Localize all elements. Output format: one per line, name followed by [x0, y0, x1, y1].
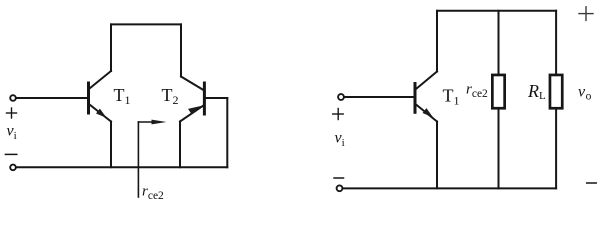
- transistor T2 (left): [180, 77, 204, 122]
- minus sign (output): [587, 182, 597, 184]
- resistor rce2: [492, 75, 504, 108]
- svg-text:vi: vi: [335, 130, 345, 150]
- wire: RL bottom lead: [555, 109, 557, 189]
- resistor RL: [550, 75, 562, 108]
- wire: right bottom rail: [343, 187, 556, 189]
- svg-text:vi: vi: [7, 123, 17, 143]
- wire: T1 emitter vertical: [110, 122, 112, 168]
- wire: T2 collector vertical: [180, 24, 182, 76]
- wire: top rail (left circuit): [111, 23, 181, 25]
- wire: right collector vertical: [436, 11, 438, 72]
- svg-text:T1: T1: [443, 86, 460, 108]
- svg-text:rce2: rce2: [142, 184, 164, 203]
- plus sign (output): [579, 7, 593, 21]
- wire: rce2 top lead: [498, 11, 500, 75]
- plus sign (left input): [7, 108, 17, 118]
- terminal: left input bottom: [10, 165, 16, 171]
- wire: top rail (right circuit): [437, 10, 556, 12]
- terminal: right input top: [338, 94, 344, 100]
- transistor T1 (left): [89, 71, 112, 122]
- wire: T2 base return vertical: [226, 98, 228, 167]
- terminal: left input top: [10, 95, 16, 101]
- plus sign (right input): [333, 109, 344, 120]
- wire: right emitter vertical: [436, 122, 438, 189]
- wire: left bottom rail: [17, 166, 228, 168]
- svg-text:rce2: rce2: [466, 82, 488, 101]
- minus sign (right input): [334, 177, 344, 179]
- wire: T1 collector vertical: [110, 24, 112, 71]
- wire: right base wire: [345, 96, 414, 98]
- svg-text:vo: vo: [578, 84, 592, 103]
- transistor T1 (right): [415, 72, 437, 122]
- wire: RL top lead: [555, 11, 557, 75]
- wire: T2 base lead: [206, 97, 227, 99]
- svg-text:T1: T1: [114, 85, 131, 107]
- svg-text:RL: RL: [527, 81, 546, 102]
- terminal: right input bottom: [337, 185, 343, 191]
- wire: T2 emitter vertical: [179, 122, 181, 168]
- svg-text:T2: T2: [162, 85, 179, 107]
- pointer arrow for rce2: [138, 120, 166, 197]
- wire: left base wire: [17, 97, 87, 99]
- minus sign (left input): [5, 153, 16, 155]
- wire: rce2 bottom lead: [498, 109, 500, 189]
